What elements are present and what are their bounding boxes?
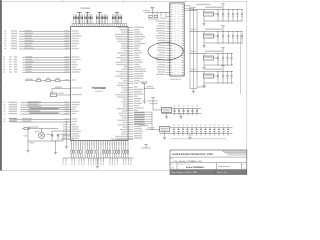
U1 right pin wires upper [128,27,146,84]
svg-text:CON1 HEL 20: CON1 HEL 20 [170,78,182,81]
svg-text:QFP128: QFP128 [95,90,103,93]
CON1 right bus wires [184,6,205,93]
wire bundle group C (6 signals) [4,101,71,114]
label U1 part number [80,7,91,10]
power flag above title block [141,145,151,148]
IC U1 TS09964K [71,27,128,141]
driver cell U3 [190,4,243,26]
svg-text:B<docTS09964K>: B<docTS09964K> [186,166,205,169]
VCC feed node [140,81,155,103]
CON1 left wires and net labels [156,20,170,74]
series resistors row into U1 [25,77,71,81]
pull-up resistor bank RN3 [96,12,108,23]
title block [170,150,247,175]
U1 right pin wires lower [128,86,145,138]
connector CON1 [170,3,185,81]
pull-up resistor bank RN4 [112,12,122,23]
U1 lower-left pin stubs [63,124,71,139]
crystal circuit Y1 [143,7,170,19]
U1 bottom pins and ground bus [61,139,134,168]
border frame [0,0,247,171]
svg-text:TS09964K: TS09964K [80,7,91,10]
U1 top pin stubs [72,24,127,27]
svg-text:Title: Title [171,158,174,160]
pull-up resistor bank RN2 [84,12,92,23]
wire bundle group A (8 signals) [4,30,70,49]
driver cell U4 [190,26,243,48]
wire pair group D (LCD backlight) [3,118,70,122]
svg-text:Size: Size [171,164,174,166]
svg-text:ULTRA SOUND TECNOLOGY .COM: ULTRA SOUND TECNOLOGY .COM [172,153,213,156]
wire bundle group B (7 signals) [3,56,70,73]
sub-circuit DV33 branch [50,87,70,97]
svg-text:Date: Monday , April 10 , 200: Date: Monday , April 10 , 2006 [172,171,197,174]
pull-up rail [72,23,128,25]
svg-text:Sheet 1 of 2: Sheet 1 of 2 [217,171,227,174]
svg-text:SW1 A: SW1 A [141,82,148,85]
driver column bus taps [190,4,210,72]
pull-up resistor bank RN1 [73,12,83,23]
reset/backlight transistor circuit [22,122,71,155]
U1 internal pin names [72,27,127,140]
regulator U2 LM1117 with caps [148,98,202,119]
highlight ellipse [148,43,183,60]
svg-text:LCD_Monitor_TS09964K_V04: LCD_Monitor_TS09964K_V04 [174,160,203,163]
decoupling capacitor bank [140,112,233,139]
driver cell U5 [190,48,233,70]
svg-text:TS09964K: TS09964K [92,86,108,90]
driver cell U6 [190,66,233,88]
wire cell2 output drop [240,33,242,94]
svg-text:Document Number: Document Number [178,164,190,166]
label SW1 [141,81,148,85]
svg-text:Page Numbers: Page Numbers [218,165,230,168]
